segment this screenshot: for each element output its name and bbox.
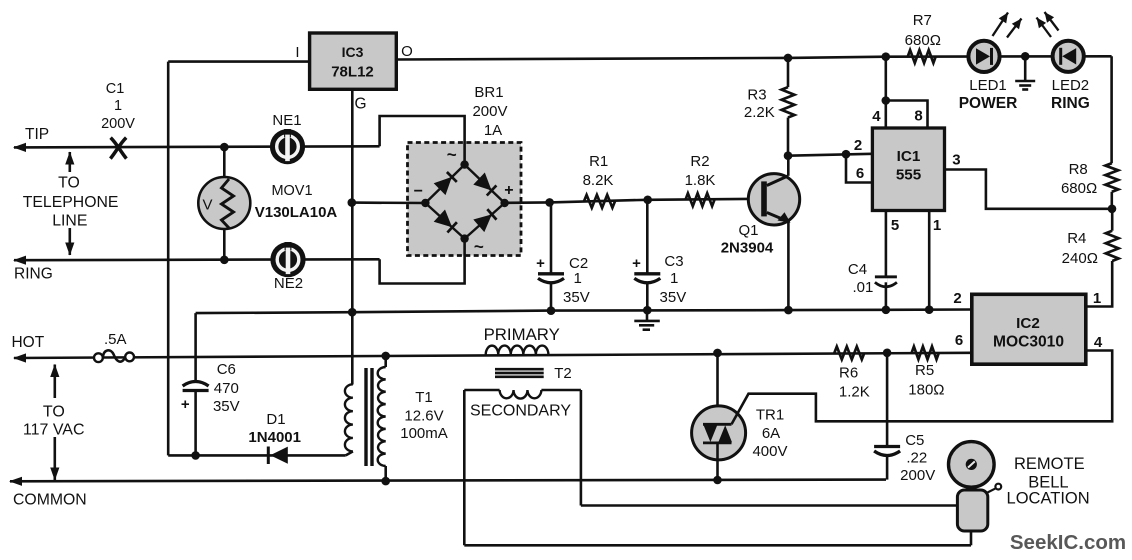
label R4	[1062, 230, 1098, 267]
svg-text:IC1: IC1	[897, 148, 921, 165]
diode BR1 upper-right	[473, 173, 496, 196]
node T1 primary top on HOT	[381, 352, 390, 361]
label C4	[848, 261, 873, 296]
watermark SeekIC.com	[1010, 531, 1126, 554]
label C6	[213, 361, 240, 415]
svg-text:.22: .22	[906, 450, 927, 467]
pin label I	[295, 44, 299, 61]
capacitor C5	[874, 447, 900, 456]
wire R3 bottom	[787, 118, 790, 156]
label C1 value	[101, 81, 135, 132]
pin label G	[354, 96, 366, 113]
label V inside MOV1	[202, 197, 212, 214]
wire T2 secondary left lead	[463, 390, 466, 545]
label BR1 ac bottom	[474, 237, 484, 256]
wire NE2 to BR1 bottom	[380, 239, 465, 284]
winding T1 primary	[378, 367, 386, 466]
node IC1 supply on rail	[882, 52, 891, 61]
svg-text:I: I	[295, 44, 299, 61]
svg-text:MOC3010: MOC3010	[993, 334, 1064, 351]
svg-text:C4: C4	[848, 261, 867, 278]
label MOV1	[255, 183, 338, 221]
svg-text:240Ω: 240Ω	[1062, 250, 1098, 267]
svg-text:1: 1	[574, 270, 582, 287]
neon lamp NE2	[270, 242, 305, 277]
svg-text:R6: R6	[839, 365, 858, 382]
svg-text:R7: R7	[913, 12, 932, 29]
svg-text:5: 5	[891, 217, 899, 234]
node Q1 emitter on rail	[784, 306, 793, 315]
svg-text:6: 6	[955, 332, 963, 349]
svg-text:V: V	[202, 197, 212, 214]
capacitor C2	[538, 274, 564, 283]
node BR1 left	[421, 199, 429, 207]
svg-text:R5: R5	[915, 362, 934, 379]
svg-text:680Ω: 680Ω	[1061, 180, 1097, 197]
node R3 top on rail	[784, 54, 793, 63]
label C6 plus	[181, 396, 190, 413]
label IC3	[342, 44, 364, 60]
label MOC3010	[993, 334, 1064, 351]
svg-text:R3: R3	[747, 87, 766, 104]
node BR1 top	[460, 160, 468, 168]
wire G to BR1 left node	[352, 201, 426, 204]
pin label 3	[952, 152, 960, 169]
node BR1 bottom	[460, 234, 468, 242]
pin label 5	[891, 217, 899, 234]
svg-text:LED2: LED2	[1052, 77, 1090, 94]
svg-text:−: −	[414, 183, 423, 200]
svg-text:12.6V: 12.6V	[404, 408, 443, 425]
label BR1	[472, 84, 507, 139]
wire right edge down to R8	[1110, 56, 1113, 163]
svg-text:2: 2	[953, 290, 961, 307]
svg-text:200V: 200V	[900, 467, 935, 484]
label SECONDARY	[470, 403, 571, 420]
svg-text:C1: C1	[106, 81, 125, 97]
node rail G junction	[348, 308, 357, 317]
svg-text:4: 4	[872, 108, 881, 125]
svg-text:2: 2	[854, 137, 862, 154]
node C3 top junction	[643, 196, 652, 205]
svg-text:REMOTE: REMOTE	[1014, 455, 1085, 473]
label T2	[554, 365, 572, 382]
svg-text:RING: RING	[1051, 95, 1090, 112]
resistor R3	[782, 87, 795, 117]
wire R3 to pin2	[788, 154, 872, 156]
svg-text:1: 1	[1093, 290, 1101, 307]
resistor R5	[912, 347, 939, 360]
svg-text:C5: C5	[905, 432, 924, 449]
capacitor C3	[634, 274, 660, 283]
wire pin1 vertical	[928, 211, 931, 310]
pin label O	[401, 43, 413, 60]
varistor MOV1	[198, 147, 250, 260]
svg-text:COMMON: COMMON	[13, 492, 87, 509]
ground symbol between LEDs	[1015, 56, 1035, 89]
label IC1	[897, 148, 921, 165]
svg-text:LED1: LED1	[969, 77, 1007, 94]
triac TR1	[692, 406, 746, 460]
label HOT	[11, 334, 44, 351]
to telephone line arrows	[65, 152, 74, 256]
node pin5 on rail	[882, 306, 891, 315]
node R6 R5 C5 junction	[883, 349, 892, 358]
pin label 4 IC2	[1094, 334, 1103, 351]
node pin4 pin8 junction	[882, 96, 891, 105]
label 555	[896, 167, 922, 184]
svg-text:NE1: NE1	[272, 112, 301, 129]
pin label 2 IC2	[953, 290, 961, 307]
wire pin3 route	[945, 170, 1113, 209]
svg-text:1.2K: 1.2K	[839, 384, 870, 401]
label Q1	[721, 222, 774, 257]
node MOV top junction	[220, 143, 229, 152]
svg-text:R2: R2	[690, 153, 709, 170]
svg-text:1A: 1A	[484, 122, 502, 139]
capacitor C1	[110, 138, 126, 159]
wire IC3 input from left vertical	[168, 60, 309, 63]
timer IC1 555	[872, 128, 944, 211]
winding T1 secondary	[345, 384, 353, 451]
label .5A	[104, 331, 127, 348]
svg-text:1: 1	[114, 98, 122, 114]
label BR1 ac top	[447, 145, 457, 164]
svg-text:3: 3	[952, 152, 960, 169]
wire R4 to IC2 pin1	[1086, 261, 1112, 307]
node BR1 right	[500, 199, 508, 207]
node pin2 tie junction	[842, 150, 851, 159]
wire bell middle	[581, 504, 959, 507]
fuse .5A	[94, 350, 134, 362]
node TR1 bottom on COMMON	[713, 476, 722, 485]
svg-text:200V: 200V	[472, 103, 507, 120]
arrow HOT line end	[13, 353, 26, 362]
label NE2	[274, 275, 303, 292]
remote bell	[949, 442, 1002, 546]
label C3 plus	[632, 255, 641, 272]
svg-text:PRIMARY: PRIMARY	[484, 325, 560, 344]
svg-text:SECONDARY: SECONDARY	[470, 403, 571, 420]
node plus output C2 top	[545, 198, 554, 207]
label R6	[839, 365, 870, 401]
wire G line vertical	[351, 89, 354, 384]
label R2	[685, 153, 716, 189]
core T2	[495, 369, 544, 377]
wire T1 secondary lead to D1 wire	[346, 451, 353, 455]
wire TIP line	[14, 146, 380, 147]
resistor R2	[686, 193, 715, 206]
to 117 VAC arrows	[50, 364, 59, 481]
svg-text:T1: T1	[415, 389, 433, 406]
svg-text:+: +	[536, 255, 545, 272]
pin label 8	[914, 108, 922, 125]
resistor R8	[1105, 163, 1118, 192]
svg-text:R1: R1	[589, 153, 608, 170]
svg-text:POWER: POWER	[959, 95, 1018, 112]
winding T2 secondary	[464, 390, 581, 399]
pin label 1 IC2	[1093, 290, 1101, 307]
wire T1 primary top lead	[384, 356, 387, 368]
svg-text:6: 6	[856, 165, 864, 182]
svg-text:1: 1	[670, 270, 678, 287]
wire NE1 to BR1 top	[380, 116, 465, 165]
svg-text:TO: TO	[43, 404, 65, 421]
wire D1 rail	[168, 454, 346, 457]
label R5	[908, 362, 944, 399]
svg-text:T2: T2	[554, 365, 572, 382]
node MOV bottom junction	[220, 255, 229, 264]
wire C6 vertical upper	[194, 313, 197, 381]
resistor R6	[834, 347, 864, 360]
pin label 6 IC2	[955, 332, 963, 349]
svg-text:LOCATION: LOCATION	[1007, 489, 1090, 507]
pin label 4	[872, 108, 881, 125]
label POWER	[959, 95, 1018, 112]
wire Q1 emitter vertical	[787, 221, 790, 311]
wire TR1 gate route	[732, 351, 1113, 425]
pin label 2	[854, 137, 862, 154]
svg-text:RING: RING	[14, 266, 53, 283]
label IC2	[1016, 315, 1040, 332]
svg-text:+: +	[181, 396, 190, 413]
label RING	[14, 266, 53, 283]
svg-text:V130LA10A: V130LA10A	[255, 204, 338, 221]
wire pin2 to pin6 tie	[846, 154, 872, 182]
svg-text:1: 1	[933, 217, 941, 234]
LED2 light arrows	[1037, 12, 1059, 37]
wire R3 top	[787, 58, 790, 87]
svg-text:4: 4	[1094, 334, 1103, 351]
svg-text:SeekIC.com: SeekIC.com	[1010, 531, 1126, 554]
wire top supply rail from IC3 O	[396, 56, 1111, 59]
label COMMON	[13, 492, 87, 509]
wire BR1 plus to Q1 base	[505, 199, 761, 203]
svg-text:+: +	[632, 255, 641, 272]
wire RING line	[14, 258, 380, 262]
wire C3 vertical	[646, 200, 649, 310]
svg-text:8: 8	[914, 108, 922, 125]
svg-text:35V: 35V	[660, 289, 687, 306]
wire Q1 collector vertical	[787, 156, 790, 176]
svg-text:.5A: .5A	[104, 331, 127, 348]
svg-text:R8: R8	[1069, 161, 1088, 178]
svg-text:180Ω: 180Ω	[908, 382, 944, 399]
label C2	[563, 255, 590, 306]
diode BR1 lower-right	[473, 209, 496, 232]
label C2 plus	[536, 255, 545, 272]
svg-text:R4: R4	[1067, 230, 1086, 247]
svg-text:IC3: IC3	[342, 44, 364, 60]
node R8 R4 pin3 junction	[1108, 205, 1117, 214]
wire pin8 loop	[886, 101, 928, 129]
svg-text:35V: 35V	[213, 398, 240, 415]
svg-text:.01: .01	[852, 279, 873, 296]
arrow RING line end	[13, 256, 26, 265]
node G bridge junction	[348, 198, 357, 207]
regulator IC3 78L12	[310, 33, 397, 89]
svg-text:1.8K: 1.8K	[685, 172, 716, 189]
svg-text:NE2: NE2	[274, 275, 303, 292]
optocoupler IC2 MOC3010	[972, 294, 1086, 364]
pin label 6	[856, 165, 864, 182]
label TO TELEPHONE LINE	[23, 175, 119, 230]
diode BR1 lower-left	[434, 210, 457, 233]
node pin1 on rail	[925, 305, 934, 314]
resistor R1	[584, 195, 615, 208]
svg-text:~: ~	[447, 145, 457, 164]
wire common rail	[196, 310, 972, 314]
capacitor C6	[183, 382, 209, 391]
label NE1	[272, 112, 301, 129]
svg-text:BR1: BR1	[474, 84, 503, 101]
svg-text:C3: C3	[664, 253, 683, 270]
label C5	[900, 432, 935, 484]
label R8	[1061, 161, 1097, 197]
svg-text:TO: TO	[58, 175, 80, 192]
svg-text:IC2: IC2	[1016, 315, 1040, 332]
LED1 indicator	[968, 41, 999, 72]
wire pin5 vertical	[885, 211, 888, 310]
wire C5 vertical lower	[886, 456, 889, 480]
label REMOTE BELL LOCATION	[1007, 455, 1090, 507]
neon lamp NE1	[270, 129, 305, 164]
svg-text:~: ~	[474, 237, 484, 256]
wire COMMON line	[10, 480, 886, 482]
wire TR1 bottom lead	[716, 443, 719, 480]
wire R8 to node	[1111, 192, 1114, 209]
core T1	[366, 368, 372, 466]
label TIP	[25, 126, 49, 143]
svg-text:400V: 400V	[752, 443, 787, 460]
node LED ground junction	[1021, 52, 1030, 61]
svg-text:2.2K: 2.2K	[744, 104, 775, 121]
node C6 bottom on D1 wire	[191, 451, 200, 460]
svg-text:O: O	[401, 43, 413, 60]
label R7	[905, 12, 941, 49]
node rail C3	[643, 306, 652, 315]
wire HOT line	[14, 353, 972, 358]
node R3 bottom junction	[784, 151, 793, 160]
svg-text:200V: 200V	[101, 116, 135, 132]
node T1 primary bottom on COMMON	[381, 477, 390, 486]
label RING led	[1051, 95, 1090, 112]
node rail C2	[547, 306, 556, 315]
label C3	[660, 253, 687, 306]
wire pin4 vertical	[884, 57, 887, 128]
svg-text:Q1: Q1	[738, 222, 758, 239]
label PRIMARY	[484, 325, 560, 344]
svg-text:6A: 6A	[762, 425, 780, 442]
svg-text:TELEPHONE: TELEPHONE	[23, 194, 119, 211]
svg-text:C6: C6	[217, 361, 236, 378]
wire T1 primary bottom lead	[384, 466, 387, 482]
resistor R7	[908, 50, 936, 63]
ground symbol below C3	[634, 310, 660, 330]
bridge diamond wires	[425, 165, 504, 239]
pin label 1	[933, 217, 941, 234]
diode BR1 upper-left	[434, 172, 457, 195]
svg-text:TR1: TR1	[756, 407, 784, 424]
svg-text:LINE: LINE	[52, 212, 87, 229]
svg-text:470: 470	[214, 380, 239, 397]
bridge rectifier BR1 dashed box	[408, 143, 522, 256]
svg-text:78L12: 78L12	[331, 64, 374, 81]
node TR1 top on HOT	[713, 349, 722, 358]
wire node to R4	[1111, 209, 1114, 231]
svg-text:TIP: TIP	[25, 126, 49, 143]
label R3	[744, 87, 775, 122]
svg-text:G: G	[354, 96, 366, 113]
label LED2	[1052, 77, 1090, 94]
capacitor C4	[875, 275, 897, 286]
label R1	[583, 153, 614, 189]
svg-text:8.2K: 8.2K	[583, 172, 614, 189]
label 78L12	[331, 64, 374, 81]
arrow TIP line end	[13, 143, 26, 152]
transistor Q1	[748, 174, 799, 225]
LED2 indicator	[1053, 41, 1084, 72]
svg-text:680Ω: 680Ω	[905, 32, 941, 49]
label LED1	[969, 77, 1007, 94]
label BR1 plus	[504, 182, 513, 199]
label D1	[248, 411, 301, 446]
label TO 117 VAC	[23, 404, 85, 439]
wire C2 vertical	[550, 202, 553, 310]
label TR1	[752, 407, 787, 461]
svg-text:D1: D1	[266, 411, 285, 428]
svg-text:2N3904: 2N3904	[721, 240, 774, 257]
wire bell bottom	[464, 544, 971, 547]
svg-text:35V: 35V	[563, 289, 590, 306]
wire C6 vertical lower	[194, 391, 197, 456]
svg-text:MOV1: MOV1	[271, 183, 312, 199]
svg-text:+: +	[504, 182, 513, 199]
svg-text:1N4001: 1N4001	[248, 429, 301, 446]
svg-text:117 VAC: 117 VAC	[23, 422, 85, 439]
winding T2 primary	[486, 346, 549, 355]
svg-text:555: 555	[896, 167, 922, 184]
wire C5 vertical upper	[886, 353, 889, 446]
LED1 light arrows	[993, 13, 1022, 38]
arrow COMMON line end	[9, 477, 22, 486]
wire T2 secondary right lead	[580, 390, 583, 506]
svg-text:HOT: HOT	[11, 334, 44, 351]
wire TR1 top lead	[716, 353, 719, 424]
resistor R4	[1106, 231, 1119, 261]
label T1	[400, 389, 448, 442]
diode D1	[267, 447, 288, 465]
wire left vertical rail x=168	[167, 62, 170, 456]
svg-text:100mA: 100mA	[400, 425, 448, 442]
label BR1 minus	[414, 183, 423, 200]
